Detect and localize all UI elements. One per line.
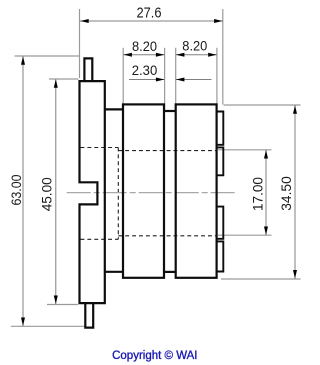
- hidden plate-bore line top (dashed): [81, 147, 119, 149]
- extension line 63.00 top: [15, 55, 81, 57]
- extension line 34.50 bottom: [221, 278, 301, 280]
- tab D: [217, 241, 224, 271]
- svg-text:63.00: 63.00: [8, 174, 24, 205]
- arrow 63.00 top: [21, 56, 25, 65]
- dimension line 63.00: [22, 57, 24, 327]
- tab A: [217, 112, 224, 145]
- arrow 8.20 left dim, right end: [156, 53, 165, 57]
- svg-text:8.20: 8.20: [132, 38, 157, 54]
- extension line 34.50 top: [224, 104, 301, 106]
- arrow 2.30 pointing left: [176, 78, 185, 82]
- arrow 8.20 right dim, right end: [208, 53, 217, 57]
- dimension line 34.50: [294, 106, 296, 279]
- hidden cylinder-bore line bottom (dashed): [118, 235, 216, 237]
- plate outline with notch: [80, 81, 105, 303]
- arrow 34.50 bottom: [293, 270, 297, 279]
- tab C: [217, 207, 224, 239]
- extension line right of 27.6: [222, 9, 224, 105]
- svg-text:27.6: 27.6: [137, 5, 162, 22]
- dimension line 17.00: [265, 150, 267, 235]
- arrow 27.6 left: [80, 19, 89, 23]
- extension line 8.20 left outer: [122, 48, 124, 104]
- extension line 45.00 bottom: [47, 304, 78, 306]
- hidden plate-bore line bottom (dashed): [81, 238, 119, 240]
- svg-text:2.30: 2.30: [132, 62, 158, 78]
- arrow 8.20 left dim, left end: [123, 53, 131, 57]
- extension line 8.20 left inner / 2.30 left: [164, 48, 166, 111]
- arrow 45.00 top: [54, 79, 58, 88]
- svg-text:8.20: 8.20: [182, 38, 207, 54]
- extension line left of 27.6: [79, 9, 81, 78]
- arrow 27.6 right: [214, 19, 223, 23]
- arrow 45.00 bottom: [54, 296, 58, 305]
- right cylinder: [176, 104, 217, 277]
- extension line 63.00 bottom: [11, 325, 86, 327]
- middle cylinder: [123, 104, 164, 277]
- arrow 34.50 top: [293, 105, 297, 114]
- dimension line 45.00: [55, 80, 57, 305]
- centerline: [67, 192, 236, 194]
- svg-text:34.50: 34.50: [278, 176, 294, 211]
- tab B: [217, 147, 224, 175]
- arrow 2.30 pointing right: [156, 78, 165, 82]
- extension line 45.00 top: [49, 78, 79, 80]
- groove top edge: [164, 110, 176, 112]
- svg-text:Copyright © WAI: Copyright © WAI: [112, 350, 197, 362]
- dimension line 8.20 left: [123, 54, 164, 56]
- hub neck bottom edge: [105, 271, 123, 273]
- extension line 8.20 right outer: [216, 48, 218, 104]
- arrow 17.00 top: [264, 150, 268, 159]
- groove bottom edge: [164, 271, 176, 273]
- arrow 63.00 bottom: [21, 318, 25, 327]
- hidden bore step (dashed vertical): [117, 148, 119, 240]
- dimension line 27.6: [80, 20, 223, 22]
- arrow 8.20 right dim, left end: [176, 53, 185, 57]
- bottom shaft stub: [85, 303, 93, 328]
- extension line 17.00 bottom: [218, 234, 272, 236]
- hub neck top edge: [105, 108, 123, 110]
- leader line 2.30 right: [176, 79, 212, 81]
- dimension line 8.20 right: [176, 54, 217, 56]
- extension line 17.00 top: [218, 149, 272, 151]
- leader line 2.30 left: [129, 79, 165, 81]
- svg-text:17.00: 17.00: [250, 177, 266, 211]
- arrow 17.00 bottom: [264, 227, 268, 236]
- top shaft stub: [84, 58, 92, 81]
- hidden cylinder-bore line top (dashed): [118, 150, 216, 152]
- extension line 8.20 right inner / 2.30 right: [175, 48, 177, 111]
- svg-text:45.00: 45.00: [39, 177, 55, 211]
